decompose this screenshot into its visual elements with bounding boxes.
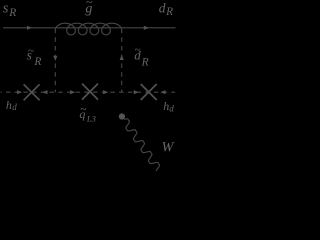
higgs/squark dashed horizontal line [1, 91, 176, 93]
SUSY Feynman diagram [0, 0, 180, 171]
svg-text:W: W [162, 140, 175, 156]
svg-text:R: R [8, 7, 16, 19]
svg-text:d: d [134, 47, 141, 62]
wire: incoming quark line s_R [3, 27, 55, 29]
svg-text:d: d [12, 102, 17, 112]
vertex blob for W emission [119, 113, 125, 119]
svg-text:d: d [159, 1, 166, 16]
W boson wavy line [124, 119, 160, 171]
squark propagator d~_R (right vertical dashed) [121, 29, 123, 93]
svg-text:q: q [79, 107, 85, 121]
svg-text:g: g [85, 1, 92, 16]
gluino curly line g~ [55, 23, 121, 35]
wire: outgoing quark line d_R [122, 27, 176, 29]
arrow 4 [120, 55, 124, 60]
svg-text:h: h [6, 98, 12, 112]
arrow 1 [27, 26, 32, 30]
arrow 10 [160, 90, 165, 94]
svg-text:s: s [3, 0, 9, 16]
svg-text:L3: L3 [86, 113, 96, 123]
arrow 6 [42, 90, 47, 94]
squark propagator s~_R (left vertical dashed) [54, 29, 56, 93]
arrow 2 [144, 26, 149, 30]
mass insertion cross right [141, 84, 157, 100]
arrow 3 [53, 56, 57, 61]
mass insertion cross center [82, 84, 98, 100]
arrow 5 [17, 90, 22, 94]
svg-text:d: d [169, 103, 174, 113]
svg-text:R: R [141, 56, 149, 68]
gluino U-line: straight core through curly gluon [55, 27, 121, 29]
svg-text:R: R [33, 56, 41, 68]
arrow 8 [103, 90, 108, 94]
arrow 7 [70, 90, 75, 94]
mass insertion cross left [24, 84, 40, 100]
svg-text:R: R [165, 6, 173, 18]
svg-text:s: s [27, 48, 32, 63]
arrow 9 [134, 90, 139, 94]
